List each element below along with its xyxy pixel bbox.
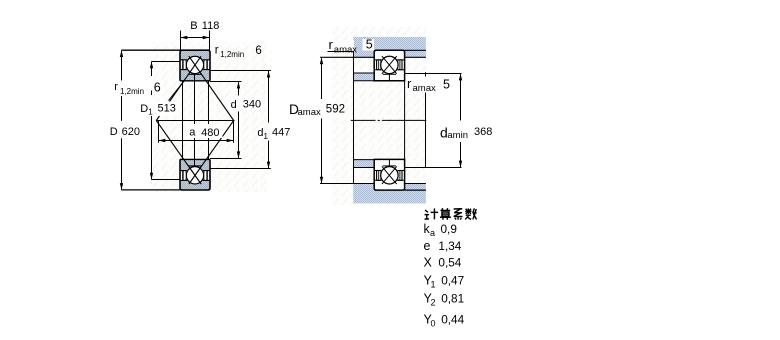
- column right edge: [425, 72, 427, 167]
- raceway boundary lines (top section right fig): [374, 59, 404, 61]
- svg-text:B: B: [190, 20, 197, 32]
- svg-text:e: e: [424, 239, 431, 253]
- svg-text:D: D: [110, 126, 118, 138]
- D1 top extension line: [152, 61, 181, 63]
- ball with groove gap (top section): [186, 55, 205, 74]
- svg-text:620: 620: [122, 126, 140, 138]
- bearing section outline (bottom, right figure): [374, 159, 404, 190]
- d1 bottom extension line: [210, 168, 271, 170]
- D1 dimension line: [150, 62, 153, 180]
- svg-text:1: 1: [148, 108, 153, 117]
- svg-text:5: 5: [443, 77, 450, 91]
- shaft side (blue, below bearing): [353, 183, 426, 203]
- 数: [465, 208, 476, 219]
- svg-text:r: r: [215, 45, 219, 57]
- shaft shoulder edge right (bottom): [405, 183, 426, 185]
- bore line (bottom section): [180, 158, 210, 160]
- B dimension extension lines: [180, 31, 182, 51]
- split line (bottom section right fig): [388, 159, 390, 166]
- ramax label underline (top left): [328, 51, 354, 53]
- label D1 513: [139, 102, 179, 117]
- label D 620: [103, 125, 141, 138]
- contact angle line bottom ball, from left: [156, 121, 201, 185]
- faint hatch behind right figure: [331, 27, 426, 205]
- raceway boundary lines (bottom section): [180, 170, 210, 172]
- svg-text:368: 368: [474, 126, 492, 138]
- cage bars hatched (bottom section right fig): [377, 171, 402, 181]
- groove chord (bottom section right fig): [383, 165, 396, 167]
- svg-text:amax: amax: [413, 83, 436, 94]
- label r 1,2min (left): [113, 81, 149, 96]
- svg-text:r: r: [114, 81, 118, 93]
- svg-text:1: 1: [264, 132, 269, 141]
- D top extension line: [122, 49, 181, 51]
- bearing inner ring (bottom section, left figure): [180, 159, 210, 170]
- bearing outer ring (top section, left figure): [180, 50, 210, 60]
- ball (bottom section right fig): [380, 166, 399, 185]
- svg-text:X: X: [424, 256, 433, 270]
- bore edge line right between sections: [208, 81, 210, 160]
- label r amax 5 (right): [406, 76, 450, 94]
- svg-text:0,81: 0,81: [441, 292, 464, 306]
- svg-text:0,9: 0,9: [441, 222, 457, 236]
- raceway boundary lines (top section): [180, 59, 210, 61]
- bearing right face between sections: [404, 81, 406, 160]
- svg-text:1,2min: 1,2min: [120, 87, 144, 96]
- contact angle line top-right to bottom-left: [156, 56, 201, 120]
- d top extension line: [210, 81, 242, 83]
- split line (top section right fig): [388, 74, 390, 81]
- faint hatch behind left figure: [150, 42, 266, 192]
- svg-text:D: D: [140, 103, 148, 115]
- housing bore line right of bearing (top): [405, 49, 426, 51]
- svg-text:480: 480: [201, 127, 219, 139]
- svg-text:r: r: [407, 76, 412, 91]
- table row ka 0,9: [424, 222, 457, 238]
- svg-text:1,34: 1,34: [438, 239, 461, 253]
- D1 bottom extension line: [152, 179, 181, 181]
- svg-text:6: 6: [154, 81, 161, 95]
- svg-text:340: 340: [243, 99, 261, 111]
- table row Y1 0,47: [424, 274, 465, 290]
- d dimension line: [237, 82, 240, 159]
- bearing outer ring (bottom section, left figure): [180, 180, 210, 190]
- table row e 1,34: [424, 239, 462, 253]
- d1 top extension line: [210, 70, 271, 72]
- svg-text:447: 447: [272, 127, 290, 139]
- svg-text:2: 2: [431, 298, 436, 308]
- heading 计算系数 (drawn glyphs): [425, 208, 477, 219]
- svg-text:amin: amin: [447, 130, 468, 141]
- cage bars (top section): [182, 60, 184, 70]
- da extension line (right of bearing): [405, 73, 462, 75]
- svg-text:1,2min: 1,2min: [220, 50, 244, 59]
- table row Y0 0,44: [424, 313, 465, 329]
- 系: [454, 209, 463, 220]
- centerline / inner ring split line: [194, 74, 196, 166]
- contact angle line top-left to bottom-right: [189, 56, 234, 120]
- inner ring groove chord (top section): [188, 73, 201, 75]
- ball with groove gap (bottom section): [186, 166, 205, 185]
- svg-text:1: 1: [431, 280, 436, 290]
- svg-text:0,44: 0,44: [441, 313, 464, 327]
- svg-text:a: a: [430, 228, 435, 238]
- svg-text:0,54: 0,54: [438, 256, 461, 270]
- label r 1,2min 6 (top right): [215, 45, 262, 59]
- shaft shoulder block (lower left): [353, 160, 374, 168]
- label damin 368: [440, 125, 492, 141]
- cage bars hatched (top section right fig): [377, 60, 402, 70]
- label a 480: [186, 124, 223, 139]
- a dimension line with arrows: [159, 139, 234, 142]
- inner ring groove chord (bottom section): [188, 165, 201, 167]
- housing shoulder edge line with Damax extension (top): [320, 56, 374, 58]
- D bottom extension line: [122, 189, 181, 191]
- svg-text:0: 0: [431, 319, 436, 329]
- label 6 (left r value): [153, 81, 164, 94]
- bore edge line left between sections: [182, 81, 184, 160]
- d1 dimension line: [267, 71, 270, 169]
- bearing inner ring (top section, left figure): [180, 70, 210, 81]
- contact angle line bottom ball, from right: [189, 121, 234, 185]
- svg-text:d: d: [231, 99, 237, 111]
- svg-text:592: 592: [326, 103, 345, 115]
- table row X 0,54: [424, 256, 462, 270]
- ball (top section right fig): [380, 55, 399, 74]
- label r amax 5 (top) with white box: [327, 37, 374, 55]
- Damax dimension line: [320, 57, 323, 183]
- raceway boundary lines (bottom section right fig): [374, 170, 404, 172]
- svg-text:118: 118: [202, 20, 220, 32]
- shaft surface line right of bearing (bottom): [405, 189, 426, 191]
- svg-text:amax: amax: [334, 44, 357, 55]
- label d 340: [228, 97, 263, 111]
- a extension lines: [158, 121, 160, 143]
- label d1 447: [257, 127, 290, 141]
- table row Y2 0,81: [424, 292, 465, 308]
- damin dimension line: [459, 74, 462, 168]
- shaft shoulder block (upper left): [353, 73, 374, 81]
- svg-text:6: 6: [255, 45, 261, 57]
- center line (dash-dot): [351, 119, 376, 121]
- outer ring outline (bottom section): [180, 159, 210, 190]
- bore line (top section): [180, 80, 210, 82]
- 计: [425, 208, 439, 219]
- label Damax 592: [289, 102, 345, 118]
- a reference line at contact intersection: [156, 120, 234, 122]
- svg-text:5: 5: [366, 38, 373, 52]
- svg-text:0,47: 0,47: [441, 274, 464, 288]
- outer ring outline (top section): [180, 50, 210, 81]
- d bottom extension line: [210, 158, 242, 160]
- 算: [440, 208, 451, 219]
- bearing section outline (top, right figure): [374, 50, 404, 81]
- svg-text:r: r: [329, 37, 334, 52]
- B dimension line with arrows: [181, 36, 210, 39]
- housing shoulder edge right (top): [405, 56, 426, 58]
- svg-text:513: 513: [158, 103, 176, 115]
- cage bars (bottom section): [182, 171, 184, 181]
- housing (blue, above bearing): [353, 37, 426, 57]
- D dimension line: [120, 50, 123, 190]
- damin bottom extension line: [405, 167, 462, 169]
- groove chord (top section right fig): [383, 73, 396, 75]
- housing left face edge: [353, 52, 355, 184]
- contact X lines (top section right fig): [382, 56, 397, 74]
- svg-text:a: a: [189, 126, 196, 138]
- leader line to inner ring chamfer: [169, 81, 184, 100]
- contact X lines (bottom section right fig): [382, 166, 397, 184]
- shaft shoulder edge line with Damax extension (bottom): [320, 183, 374, 185]
- svg-text:amax: amax: [298, 107, 321, 118]
